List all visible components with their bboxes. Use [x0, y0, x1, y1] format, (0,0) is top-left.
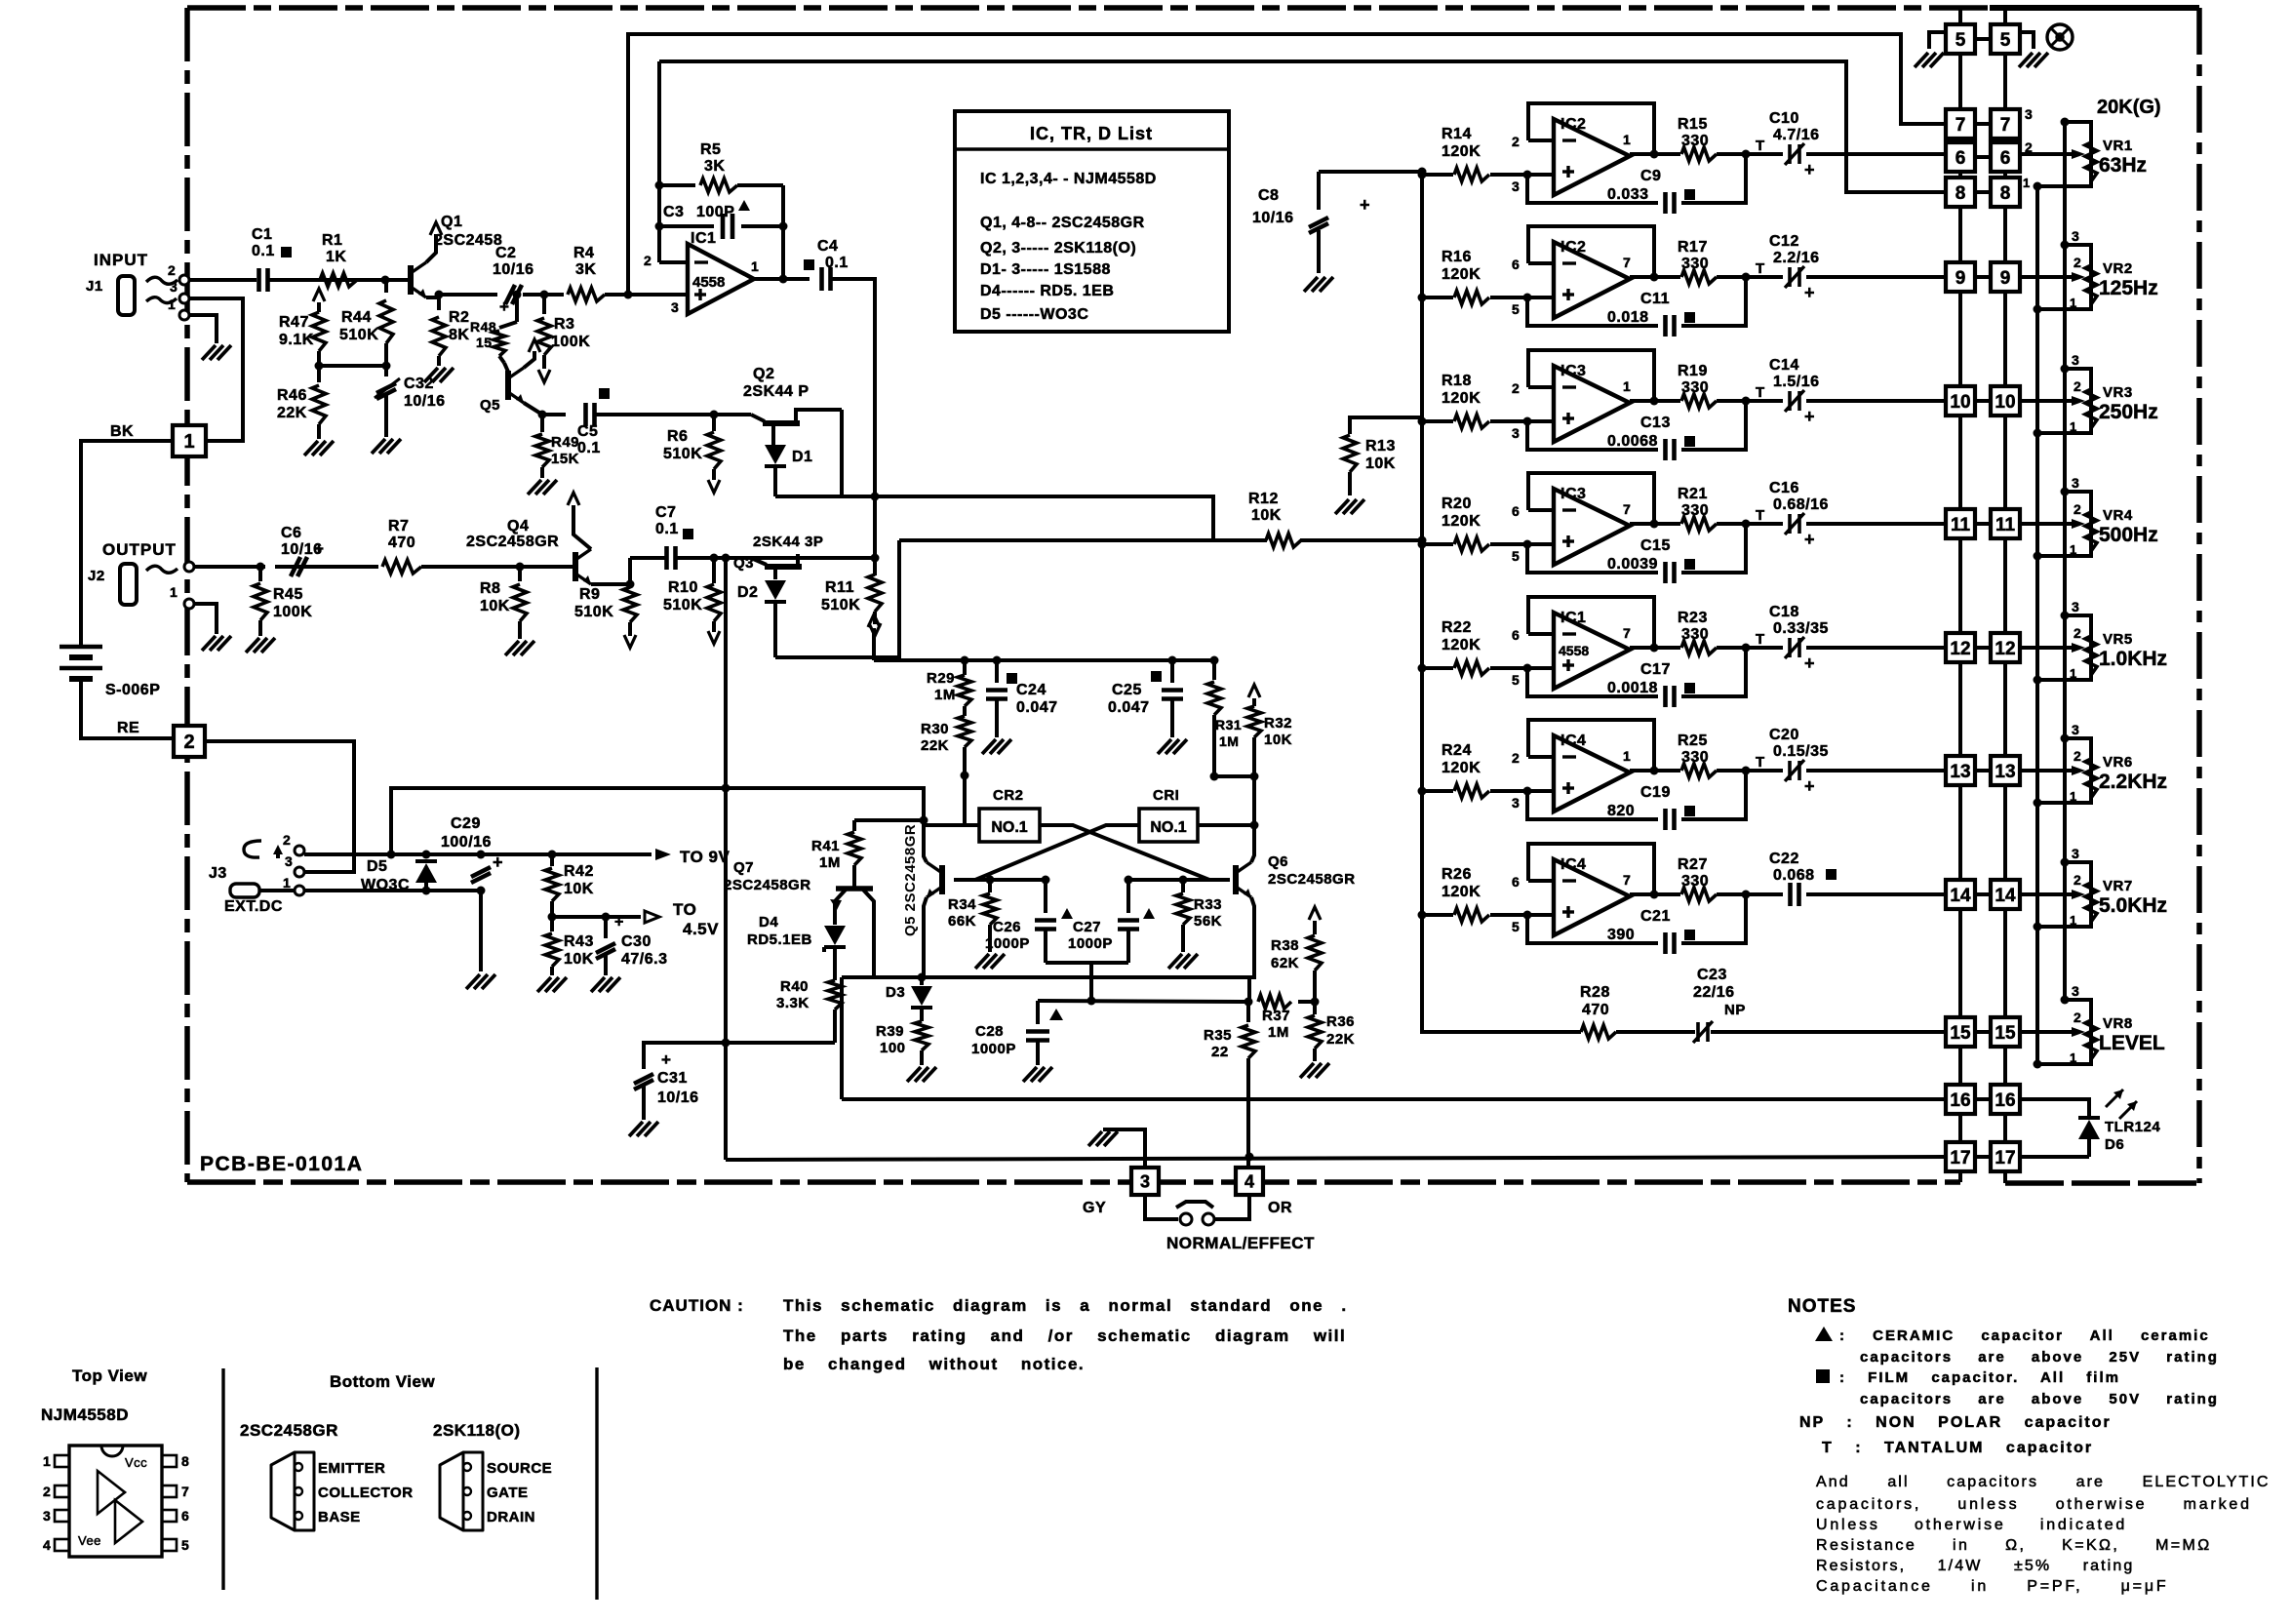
pad 6 link — [1975, 155, 1991, 159]
junction D5 bottom — [422, 887, 431, 895]
C1 film marker — [281, 247, 292, 257]
wire R31 R32 node — [1214, 774, 1254, 778]
svg-text:R9: R9 — [579, 586, 600, 603]
svg-text:3: 3 — [2072, 228, 2079, 244]
wire VR4 wiper — [2020, 522, 2072, 526]
DIP8 opamp 1 — [98, 1471, 125, 1514]
wire VR1 wiper — [2020, 152, 2072, 156]
svg-text:15K: 15K — [551, 451, 579, 467]
svg-text:+: + — [1360, 195, 1370, 215]
svg-text:R24: R24 — [1442, 742, 1472, 759]
svg-text:1: 1 — [1623, 132, 1631, 147]
pad 1 box — [173, 425, 206, 456]
svg-text:T: T — [1756, 631, 1765, 648]
svg-text:1: 1 — [2023, 176, 2031, 190]
capacitor C4 — [819, 267, 824, 291]
svg-text:C3: C3 — [663, 204, 684, 220]
border frame bottom — [187, 1179, 1960, 1185]
junction R42 top — [548, 851, 557, 859]
pad 9 link — [1975, 275, 1991, 279]
capacitor C31 — [634, 1074, 653, 1084]
capacitor C16 — [1788, 514, 1792, 534]
svg-text:10K: 10K — [1264, 732, 1292, 748]
wire left bus — [1958, 207, 1962, 262]
resistor R5 — [659, 183, 695, 187]
pad 13 link — [1975, 769, 1991, 772]
potentiometer VR8 body — [2065, 1000, 2091, 1064]
resistor R40 — [828, 980, 842, 1010]
svg-text:NOTES: NOTES — [1788, 1296, 1856, 1317]
svg-text:C24: C24 — [1016, 682, 1047, 698]
resistor R23 — [1681, 641, 1717, 654]
svg-text:1M: 1M — [934, 687, 956, 703]
C15 film marker — [1684, 559, 1695, 570]
junction sw rail x744 — [722, 784, 731, 793]
junction plus 5 — [1523, 664, 1532, 673]
svg-text:C19: C19 — [1640, 784, 1671, 801]
svg-text:2SK118(O): 2SK118(O) — [433, 1421, 521, 1440]
svg-text:NP : NON POLAR capacitor: NP : NON POLAR capacitor — [1799, 1414, 2112, 1431]
C13 film marker — [1684, 436, 1695, 447]
svg-text:2: 2 — [2074, 872, 2081, 888]
svg-text:R49: R49 — [551, 434, 579, 451]
Q5a collector — [524, 351, 534, 368]
DIP8 pin 6 — [162, 1510, 177, 1522]
svg-text:6: 6 — [1512, 257, 1520, 272]
Q6 collector wire — [1251, 825, 1254, 862]
Q1 collector — [426, 234, 436, 262]
svg-text:R12: R12 — [1248, 491, 1279, 507]
svg-text:510K: 510K — [574, 604, 613, 620]
stage 2 feedback — [1528, 226, 1654, 277]
svg-text:This schematic diagram is a no: This schematic diagram is a normal stand… — [783, 1296, 1348, 1315]
svg-text:17: 17 — [1995, 1148, 2015, 1168]
wire J1 ring to pad 1 — [189, 298, 243, 441]
svg-text:CRI: CRI — [1153, 787, 1179, 804]
diode D3 — [920, 977, 924, 985]
svg-text:66K: 66K — [948, 913, 976, 930]
svg-text:15: 15 — [1950, 1023, 1971, 1044]
svg-text:R46: R46 — [277, 387, 307, 404]
svg-text:Q7: Q7 — [733, 859, 754, 876]
svg-text:R18: R18 — [1442, 373, 1472, 389]
svg-text:R3: R3 — [554, 316, 574, 333]
junction R2 — [435, 291, 444, 299]
IC1 minus — [694, 260, 708, 263]
svg-text:C13: C13 — [1640, 415, 1671, 431]
stage 7 out to pad — [1746, 892, 1783, 896]
resistor R18 — [1422, 419, 1453, 423]
stage 7 output wire — [1630, 892, 1680, 896]
junction post R25 — [1742, 767, 1751, 775]
wire VR7 wiper — [2020, 892, 2072, 896]
svg-text:R30: R30 — [921, 721, 949, 737]
stage 5 feedback — [1528, 597, 1654, 648]
resistor R42 — [550, 854, 554, 866]
svg-text:R28: R28 — [1580, 984, 1610, 1001]
border frame top — [187, 5, 2199, 11]
svg-text:1: 1 — [183, 431, 194, 453]
svg-text:390: 390 — [1607, 927, 1635, 943]
wire VR3 wiper — [2020, 399, 2072, 403]
pad 9 left column — [1946, 262, 1975, 292]
stage 6 out to pad — [1746, 769, 1783, 772]
stage 1 output junction — [1650, 150, 1659, 159]
svg-text:+: + — [499, 297, 509, 316]
svg-text:15: 15 — [476, 335, 493, 350]
svg-text:R15: R15 — [1678, 116, 1708, 133]
svg-text:VR6: VR6 — [2103, 754, 2133, 771]
capacitor C30 — [604, 917, 608, 938]
svg-text:2: 2 — [168, 262, 176, 278]
resistor R10 — [712, 558, 716, 583]
pad 16 left column — [1946, 1085, 1975, 1114]
resistor R48 — [515, 295, 519, 322]
wire left bus — [1958, 1047, 1962, 1085]
svg-text:Bottom View: Bottom View — [330, 1372, 435, 1391]
stage 4 feedback — [1528, 473, 1654, 524]
svg-text:125Hz: 125Hz — [2099, 277, 2158, 299]
svg-text:C12: C12 — [1769, 233, 1799, 250]
svg-text:120K: 120K — [1442, 637, 1481, 654]
stage 7 feedback — [1528, 844, 1654, 894]
svg-text:2: 2 — [1512, 380, 1520, 396]
svg-text:PCB-BE-0101A: PCB-BE-0101A — [200, 1153, 363, 1175]
DIP8 pin 4 — [55, 1539, 69, 1551]
junction Q5a emitter — [538, 411, 547, 419]
svg-text:VR4: VR4 — [2103, 507, 2133, 524]
capacitor C29 — [471, 867, 491, 877]
svg-text:2SK44 P: 2SK44 P — [743, 383, 810, 400]
junction VR5 pin3 — [2061, 612, 2070, 620]
wire right bus bottom — [2003, 1171, 2007, 1183]
relay CR2 box — [979, 809, 1040, 842]
wire pad16R to LED — [2020, 1099, 2089, 1119]
pad 5 link — [1975, 37, 1991, 41]
svg-text:VR3: VR3 — [2103, 384, 2133, 401]
wire R41 top — [854, 818, 924, 822]
svg-text:0.068: 0.068 — [1773, 867, 1815, 884]
svg-text:C11: C11 — [1640, 291, 1670, 307]
junction post R23 — [1742, 644, 1751, 653]
svg-text:2SC2458GR: 2SC2458GR — [724, 877, 811, 893]
stage 1 minus input — [1528, 139, 1554, 142]
svg-text:R43: R43 — [564, 933, 594, 950]
svg-text:7: 7 — [1955, 115, 1966, 136]
pad 5 right column — [1991, 24, 2020, 54]
svg-text:OR: OR — [1268, 1200, 1292, 1216]
ground C24 — [982, 739, 996, 754]
junction rail stage 2 — [1418, 294, 1427, 302]
svg-text:0.1: 0.1 — [825, 255, 849, 271]
wire right node — [1252, 776, 1256, 852]
svg-text:R8: R8 — [480, 580, 500, 597]
svg-text:1: 1 — [751, 258, 759, 274]
DIP8 opamp 2 — [115, 1500, 142, 1543]
svg-text:16: 16 — [1995, 1090, 2015, 1111]
op-amp IC2 stage 2 — [1554, 242, 1630, 318]
wire 15 line — [1422, 917, 1581, 1032]
svg-text:510K: 510K — [663, 446, 702, 462]
pad 15 right column — [1991, 1017, 2020, 1047]
junction post R15 — [1742, 150, 1751, 159]
wire x897 — [873, 496, 877, 558]
svg-text:330: 330 — [1681, 379, 1709, 396]
pad 10 link — [1975, 399, 1991, 403]
svg-text:C28: C28 — [975, 1023, 1004, 1040]
LED arrows — [2106, 1089, 2123, 1107]
VR5 zigzag — [2085, 636, 2097, 675]
svg-text:4.7/16: 4.7/16 — [1773, 127, 1819, 143]
svg-text:C7: C7 — [655, 504, 676, 521]
svg-text:330: 330 — [1681, 749, 1709, 766]
resistor R39 — [915, 1021, 928, 1050]
svg-text:22K: 22K — [921, 737, 949, 754]
stage 1 plus input — [1527, 173, 1554, 177]
resistor R14 — [1422, 173, 1453, 177]
svg-text:C23: C23 — [1697, 967, 1727, 983]
junction R6 — [710, 411, 719, 419]
svg-text:C1: C1 — [252, 226, 272, 243]
resistor R4 — [544, 293, 564, 297]
svg-text:0.018: 0.018 — [1607, 309, 1649, 326]
svg-text:R10: R10 — [668, 579, 698, 596]
svg-text:7: 7 — [181, 1484, 189, 1499]
svg-text:TO: TO — [673, 900, 696, 919]
svg-text:Resistance in Ω, K=KΩ, M=MΩ: Resistance in Ω, K=KΩ, M=MΩ — [1816, 1537, 2212, 1554]
arrow ff left — [868, 614, 880, 627]
pad 13 left column — [1946, 756, 1975, 785]
svg-text:R11: R11 — [825, 579, 854, 596]
C25 film marker — [1151, 671, 1162, 682]
svg-text:DRAIN: DRAIN — [487, 1509, 535, 1525]
svg-text:GY: GY — [1083, 1200, 1106, 1216]
svg-text:3K: 3K — [704, 158, 725, 175]
svg-text:R21: R21 — [1678, 486, 1708, 502]
svg-text:C25: C25 — [1112, 682, 1142, 698]
junction D3 — [918, 973, 927, 982]
svg-text:120K: 120K — [1442, 760, 1481, 776]
svg-text:0.033: 0.033 — [1607, 186, 1649, 203]
svg-text:3: 3 — [2072, 599, 2079, 614]
junction rail stage 1 — [1418, 171, 1427, 179]
wire left node — [963, 775, 967, 825]
svg-text:2: 2 — [2074, 748, 2081, 764]
svg-text:3: 3 — [1512, 795, 1520, 811]
J3 arrow — [276, 849, 280, 858]
junction VR7 pin3 — [2061, 858, 2070, 867]
wire pad3 ground — [1103, 1129, 1145, 1168]
feedback rail left — [657, 61, 661, 262]
rail vertical — [1420, 172, 1424, 917]
pad 8 link — [1975, 190, 1991, 194]
svg-text:1: 1 — [2070, 913, 2077, 928]
pad 8 right column — [1991, 178, 2020, 207]
svg-text:470: 470 — [1582, 1002, 1609, 1018]
resistor R2 — [437, 295, 441, 310]
svg-text:T: T — [1756, 754, 1765, 771]
junction ff C25 — [1168, 656, 1177, 665]
junction post R27 — [1742, 891, 1751, 899]
svg-text:J2: J2 — [88, 568, 105, 584]
TO92 package 2 — [440, 1452, 483, 1530]
svg-text:2: 2 — [183, 732, 194, 753]
svg-text:R27: R27 — [1678, 856, 1708, 873]
wire right bus — [2003, 909, 2007, 1017]
svg-text:C4: C4 — [817, 238, 838, 255]
stage 2 plus input — [1527, 296, 1554, 299]
arrow TO 4.5V — [645, 911, 659, 923]
wire C4 down — [831, 279, 875, 496]
capacitor C9 — [1527, 175, 1658, 203]
stage 3 output wire — [1630, 399, 1680, 403]
separator line 2 — [595, 1367, 598, 1600]
svg-text:0.33/35: 0.33/35 — [1773, 620, 1829, 637]
capacitor C2 — [505, 285, 515, 304]
wire 17 line — [726, 1157, 1946, 1160]
Q4 emitter wire — [591, 582, 630, 586]
junction VR8 pin3 — [2061, 996, 2070, 1005]
pad 5 left column — [1946, 24, 1975, 54]
svg-text:5: 5 — [1512, 672, 1520, 688]
svg-text:3: 3 — [1512, 178, 1520, 194]
svg-text:0.68/16: 0.68/16 — [1773, 496, 1829, 513]
switch actuator — [1176, 1202, 1213, 1208]
svg-text:6: 6 — [181, 1508, 189, 1524]
stage 3 out to pad — [1746, 399, 1783, 403]
svg-text:IC1: IC1 — [1560, 610, 1586, 626]
pad 10 right column — [1991, 386, 2020, 416]
J3 hook — [244, 841, 261, 857]
ground C30 — [591, 977, 605, 992]
svg-text:6: 6 — [2000, 148, 2011, 169]
svg-text:NO.1: NO.1 — [991, 819, 1027, 836]
svg-text:2: 2 — [2025, 139, 2033, 155]
op-amp IC1 stage 5 — [1554, 613, 1630, 689]
wire VR6 wiper — [2020, 769, 2072, 772]
junction fb C3 — [655, 222, 664, 231]
capacitor C21 — [1527, 915, 1658, 943]
wire right bus top — [2003, 8, 2007, 24]
ground C28 — [1023, 1067, 1037, 1082]
separator line 1 — [221, 1368, 224, 1590]
wire pad5L ground — [1929, 32, 1946, 49]
stage 4 output wire — [1630, 522, 1680, 526]
svg-text:NJM4558D: NJM4558D — [41, 1406, 129, 1424]
svg-text:10K: 10K — [1251, 507, 1282, 524]
svg-text:+: + — [1804, 283, 1815, 302]
svg-text:7: 7 — [2000, 115, 2011, 136]
svg-text:R14: R14 — [1442, 126, 1472, 142]
op-amp IC4 stage 6 — [1554, 735, 1630, 812]
Q6 emitter wire — [1249, 897, 1254, 977]
svg-text:5: 5 — [1512, 919, 1520, 934]
svg-text:10: 10 — [1950, 392, 1970, 413]
junction plus 6 — [1523, 787, 1532, 796]
svg-text:100K: 100K — [273, 604, 312, 620]
ground R39 — [907, 1067, 921, 1082]
svg-text:10/16: 10/16 — [493, 261, 534, 278]
junction plus 1 — [1523, 171, 1532, 179]
J1 pin circles — [179, 275, 189, 285]
junction VR1 pin1 — [2034, 182, 2042, 191]
wire right bus — [2003, 538, 2007, 633]
wire left bus — [1958, 292, 1962, 386]
C9 film marker — [1684, 189, 1695, 200]
wire IC1 out — [754, 277, 810, 281]
ground R46 — [304, 441, 318, 456]
svg-text:EMITTER: EMITTER — [318, 1460, 385, 1477]
diode D5 — [415, 863, 437, 883]
svg-text:R13: R13 — [1365, 438, 1396, 455]
svg-text:+: + — [314, 539, 324, 558]
op-amp IC4 stage 7 — [1554, 859, 1630, 935]
svg-text:C30: C30 — [621, 933, 652, 950]
svg-text:5: 5 — [1955, 30, 1966, 51]
stage 5 output wire — [1630, 646, 1680, 650]
svg-text:47/6.3: 47/6.3 — [621, 951, 667, 968]
fet Q2 — [751, 415, 765, 421]
svg-text:3: 3 — [2072, 475, 2079, 491]
svg-text:be changed without notice.: be changed without notice. — [783, 1355, 1085, 1373]
Q3 drain wire — [796, 554, 800, 567]
svg-text:D1: D1 — [792, 449, 812, 465]
TO92-1 pin EMITTER — [295, 1463, 302, 1471]
svg-text:D3: D3 — [886, 984, 905, 1001]
D2 loop — [775, 540, 899, 657]
ground C31 — [629, 1122, 643, 1136]
svg-text:2: 2 — [2074, 255, 2081, 270]
stage 6 output wire — [1630, 769, 1680, 772]
svg-text:9.1K: 9.1K — [279, 332, 314, 348]
DIP8 package — [69, 1446, 162, 1557]
svg-text:R5: R5 — [700, 141, 721, 158]
wire battery to pad 2 — [81, 679, 173, 738]
svg-text:capacitors are above 50V ratin: capacitors are above 50V rating — [1860, 1391, 2219, 1407]
wire right bus — [2003, 54, 2007, 109]
ground pad5R — [2019, 53, 2033, 67]
svg-text:NP: NP — [1724, 1002, 1746, 1018]
svg-text:+: + — [1804, 160, 1815, 179]
svg-text:3: 3 — [2025, 106, 2033, 122]
svg-text:R32: R32 — [1264, 715, 1292, 732]
svg-text:R33: R33 — [1194, 896, 1222, 913]
wire 17 riser — [724, 558, 728, 1160]
svg-text:5: 5 — [1512, 301, 1520, 317]
ground R2 — [424, 368, 438, 382]
wire Q2-R12 upper — [775, 496, 1213, 540]
capacitor C24 — [995, 660, 999, 683]
svg-text:330: 330 — [1681, 626, 1709, 643]
svg-text:C20: C20 — [1769, 727, 1799, 743]
svg-text:T: T — [1756, 384, 1765, 401]
junction C29 top — [477, 851, 486, 859]
stage 6 plus input — [1527, 789, 1554, 793]
svg-text:22: 22 — [1211, 1044, 1229, 1060]
D1 loop — [840, 410, 844, 496]
resistor R16 — [1422, 296, 1453, 299]
svg-text:1000P: 1000P — [1068, 935, 1113, 952]
svg-text:SOURCE: SOURCE — [487, 1460, 552, 1477]
svg-text:0.0068: 0.0068 — [1607, 433, 1658, 450]
svg-text:C31: C31 — [657, 1070, 688, 1087]
svg-text:C10: C10 — [1769, 110, 1799, 127]
svg-text:+: + — [1804, 407, 1815, 426]
wire R37 line — [1038, 1001, 1251, 1002]
svg-text:2.2/16: 2.2/16 — [1773, 250, 1819, 266]
svg-text:2: 2 — [2074, 378, 2081, 394]
junction R35 top — [1244, 998, 1253, 1007]
